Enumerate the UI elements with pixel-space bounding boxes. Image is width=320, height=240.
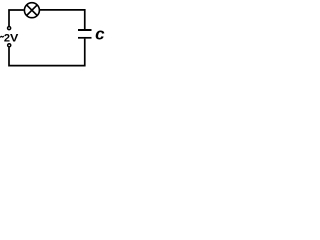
wire top-left segment <box>9 10 24 26</box>
terminal (upper) of AC source <box>8 27 11 30</box>
capacitor C bottom plate <box>78 37 92 39</box>
capacitor C top plate <box>78 29 92 31</box>
wire bottom-left segment <box>9 47 86 65</box>
wire top-right segment <box>40 10 85 29</box>
wire bottom-right segment <box>84 39 86 67</box>
label ~2 V (source voltage) <box>0 36 3 38</box>
lamp ⊗ <box>24 3 39 18</box>
svg-text:c: c <box>95 24 105 43</box>
terminal (lower) of AC source <box>8 44 11 47</box>
svg-text:V: V <box>10 32 19 44</box>
